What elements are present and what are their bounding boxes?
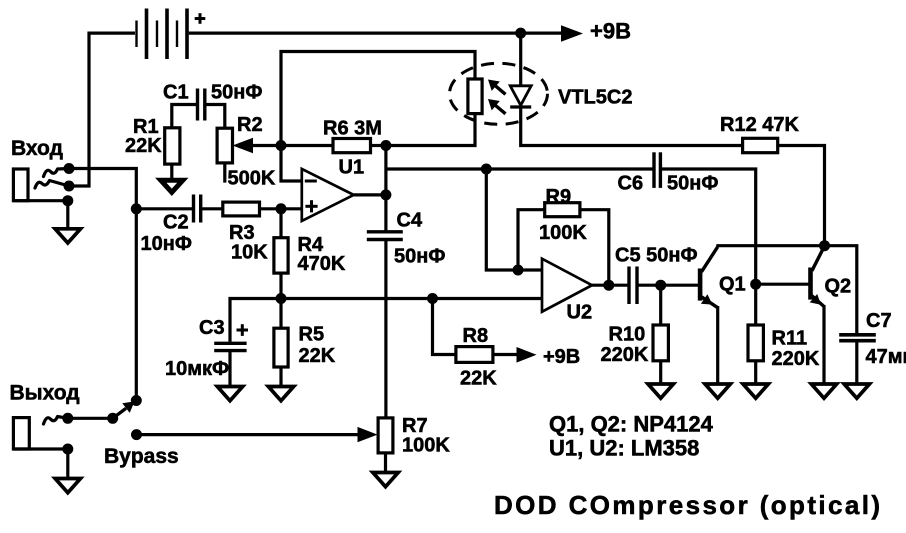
wire node A down to bypass switch [135,209,138,401]
wire U1 output to C6 [386,167,654,170]
wire R2 bottom stub [223,163,226,183]
svg-text:22K: 22K [460,368,497,390]
wire U2 minus input [518,268,542,271]
svg-text:22K: 22K [299,345,336,367]
U1 plus symbol [305,200,317,212]
wire +9V rail [189,31,563,34]
svg-text:470K: 470K [298,253,346,275]
ground C3 [217,387,242,401]
svg-text:Выход: Выход [10,382,80,405]
node R8 branch junction [427,293,438,304]
ground Q2 emitter [811,384,836,398]
wire C4 down to R7 [384,240,387,418]
wire branch down to U2 minus [486,169,518,270]
switch wiper arm [113,402,135,419]
wire U2 output [592,284,629,287]
ground C7 [844,384,869,398]
svg-text:+9В: +9В [590,18,631,43]
svg-text:+9В: +9В [543,346,580,368]
wire R8 to +9V arrow [493,353,518,356]
wire output tip line [68,417,113,420]
svg-text:C5 50нФ: C5 50нФ [615,245,698,267]
wire C1 right to R2 [205,105,225,129]
resistor R9 [545,203,580,217]
wire bottom rail [230,299,542,342]
svg-text:Q2: Q2 [825,276,852,298]
transistor Q1 [700,247,718,308]
ground R7 [373,473,398,487]
node switch throw bypass [131,429,142,440]
resistor R6 [333,139,371,153]
wire node A to C2 [136,207,193,210]
svg-text:C4: C4 [397,210,423,232]
svg-text:50нФ: 50нФ [211,82,262,104]
wire R9 feedback right [580,210,609,286]
svg-text:220K: 220K [601,344,649,366]
wire R2 wiper [248,144,281,147]
svg-text:R11: R11 [772,328,808,350]
node U2 output junction [603,280,614,291]
ground R11 [743,384,768,398]
resistor R5 [274,328,288,367]
wire photoresistor bottom to R6 junction [386,114,475,146]
arrow R7 wiper [358,427,378,442]
node input tip contact [64,163,75,174]
svg-text:C1: C1 [163,82,189,104]
node R6 left junction [276,140,287,151]
node switch throw top [131,395,142,406]
svg-text:U1, U2: LM358: U1, U2: LM358 [549,436,699,461]
svg-text:22K: 22K [125,135,162,157]
svg-text:50нФ: 50нФ [394,246,445,268]
wire R1 to ground [170,164,173,180]
ground R1 [161,180,183,192]
svg-text:Q1, Q2: NP4124: Q1, Q2: NP4124 [549,412,714,437]
node U1 output junction [380,189,391,200]
resistor R10 [653,325,668,361]
wire R8 branch [433,299,456,355]
node C6 branch junction [481,164,492,175]
wire R9 feedback left [518,210,545,270]
potentiometer R7 [378,418,393,453]
resistor R11 [748,325,763,361]
photoresistor of VTL5C2 [468,79,482,114]
svg-text:50нФ: 50нФ [667,173,718,195]
light arrow 1 [488,80,506,95]
svg-text:U1: U1 [339,157,365,179]
svg-text:47мкФ: 47мкФ [866,346,906,368]
wire R12 right down to collector rail [778,146,825,246]
wire U1 minus input [281,146,302,182]
transistor Q2 [810,247,824,307]
output jack J2 [13,417,67,450]
svg-text:10мкФ: 10мкФ [165,358,229,380]
wire R6 right [371,144,386,147]
node A input junction [131,203,142,214]
wire U1 output [354,193,386,196]
wire output sleeve to ground [66,449,69,479]
svg-text:R6 3M: R6 3M [323,118,382,140]
svg-text:R2: R2 [237,114,263,136]
resistor R3 [223,202,260,216]
battery B1 [137,9,206,60]
capacitor C4 [367,232,403,240]
op-amp U2 [542,259,592,312]
wire C1 left to R1 [172,105,198,128]
wire collector rail [716,246,857,333]
svg-text:C6: C6 [618,173,644,195]
wire R3 to U1 plus input [260,207,302,210]
wire Q2 emitter to ground [822,305,825,384]
optocoupler VTL5C2 dashed outline [450,63,548,124]
wire LED anode [519,33,522,86]
svg-text:R12 47K: R12 47K [720,114,799,136]
node collector rail junction [819,240,830,251]
capacitor C2 [194,195,201,223]
node input ring contact [64,181,75,192]
capacitor C7 [839,335,876,341]
svg-text:VTL5C2: VTL5C2 [558,87,632,109]
wire loop to photoresistor top [281,52,475,146]
node U1 plus / R4 junction [276,203,287,214]
wire R6 left [281,144,333,147]
capacitor C3 electrolytic [214,324,248,350]
wire C5 to Q1 base [637,284,698,287]
wire R10 to ground [659,361,662,384]
svg-text:10нФ: 10нФ [141,233,192,255]
light arrow 2 [488,99,506,114]
node R10 junction [655,280,666,291]
wire battery negative to input switch [69,33,135,186]
ground output jack [55,479,80,493]
ground input jack [55,229,80,243]
node input sleeve contact [62,195,73,206]
svg-text:10K: 10K [231,242,268,264]
node R4 R5 junction [276,293,287,304]
wire Q1 emitter to ground [716,306,719,384]
wire LED cathode to R12 [521,107,743,146]
capacitor C1 [198,89,205,121]
wire junction to R4 [279,209,282,238]
capacitor C5 [629,267,637,305]
wire bypass to R7 wiper [137,433,359,436]
svg-text:R10: R10 [609,324,646,346]
input jack J1 [13,169,69,201]
node output sleeve contact [62,444,73,455]
svg-text:R8: R8 [463,325,489,347]
wire input tip to node A [69,169,136,209]
svg-text:Q1: Q1 [719,274,746,296]
wire U1 feedback [384,146,387,195]
svg-text:220K: 220K [772,348,820,370]
op-amp U1 [302,169,354,221]
wire C6 right to Q2 base [660,169,755,284]
LED of VTL5C2 [510,86,531,107]
svg-text:100K: 100K [402,435,450,457]
wire C7 to ground [855,341,858,384]
wire R5 to ground [279,367,282,387]
U1 minus symbol [305,180,317,183]
resistor R8 [456,347,493,363]
wire R11 top [754,284,757,325]
wire C2 to R3 [201,207,223,210]
capacitor C6 [654,152,660,188]
svg-text:Bypass: Bypass [104,445,179,468]
svg-text:C3: C3 [199,317,225,339]
wire U1 output to C4 [384,195,387,231]
wire R7 to ground [384,453,387,473]
svg-text:C7: C7 [866,310,892,332]
potentiometer R2 [217,128,232,163]
resistor R4 [274,238,288,273]
wire input sleeve to ground [66,201,69,229]
resistor R1 [165,128,180,164]
svg-text:100K: 100K [539,222,587,244]
wire R11 to ground [754,361,757,384]
svg-text:500K: 500K [228,168,276,190]
ground R10 [648,384,673,398]
resistor R12 [743,138,778,152]
wire C3 to ground [228,351,231,387]
ground Q1 emitter [705,384,730,398]
svg-text:Вход: Вход [11,137,63,160]
arrow R2 wiper [233,138,254,154]
wire R4 to bottom rail [279,273,282,298]
node LED supply junction [515,28,526,39]
arrow +9V [561,25,583,42]
wire R5 top [279,299,282,329]
node switch wiper pivot [107,413,118,424]
svg-text:R5: R5 [299,324,325,346]
arrow R8 +9V [517,347,537,363]
svg-text:DOD COmpressor (optical): DOD COmpressor (optical) [494,490,882,520]
svg-text:U2: U2 [567,302,593,324]
node U2 minus junction [513,265,524,276]
wire R10 top [659,285,662,325]
svg-text:C2: C2 [163,212,189,234]
wire Q2 base [756,283,809,286]
node R6 right junction [380,140,391,151]
svg-text:R9: R9 [546,186,572,208]
node output tip contact [62,413,73,424]
ground R5 [268,387,293,401]
node Q2 base junction [750,279,761,290]
